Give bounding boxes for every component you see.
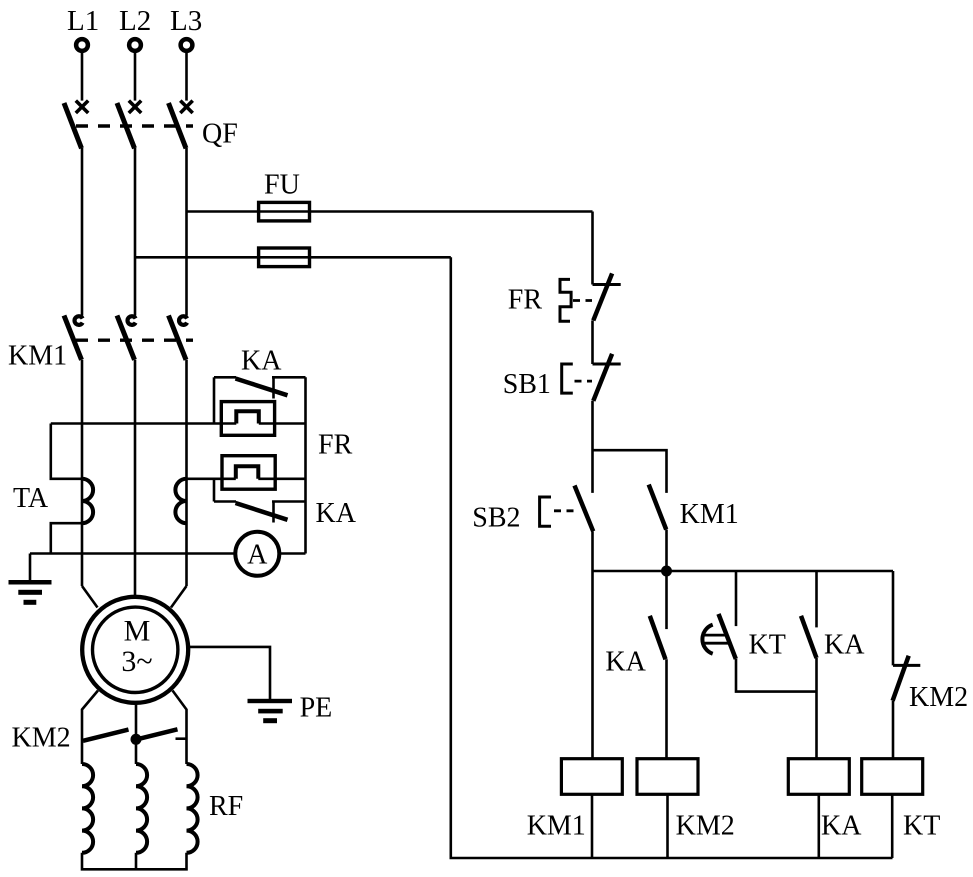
wire phase1 KM1 to motor — [81, 360, 84, 586]
wire motor exit 1 — [82, 691, 98, 765]
wire KM1 branch bottom — [665, 530, 668, 572]
breaker QF pole 2 — [117, 101, 141, 149]
contactor KM1 main pole 3 — [169, 316, 188, 360]
wire FU1 feed — [187, 210, 593, 213]
svg-text:KA: KA — [241, 346, 282, 377]
wire TA bottom tap — [51, 523, 82, 553]
contact KT delayed NO — [702, 614, 735, 659]
wire ammeter row — [30, 552, 306, 555]
svg-text:KM2: KM2 — [12, 723, 71, 754]
svg-text:KM2: KM2 — [909, 682, 968, 713]
contact KA NO left — [650, 616, 666, 660]
wire heater1 row — [51, 422, 306, 425]
coil KM2 — [637, 759, 698, 795]
svg-text:KM2: KM2 — [676, 811, 735, 842]
button SB2 dashes — [554, 509, 577, 512]
svg-text:FR: FR — [318, 429, 353, 460]
contactor KM2 bridge contact left — [83, 730, 129, 741]
ammeter A — [235, 532, 279, 576]
wire motor entry 3 — [171, 586, 187, 608]
wire KM1 coil stub — [591, 794, 594, 858]
contactor KM2 bridge contact right — [139, 729, 187, 739]
wire control bus — [593, 570, 894, 573]
svg-text:M: M — [124, 615, 151, 648]
resistor RF coil 2 — [136, 764, 147, 853]
wire L2 drop — [134, 52, 137, 101]
svg-text:3~: 3~ — [121, 645, 152, 678]
heater FR element 1 bump — [236, 411, 258, 423]
contact KA upper — [214, 377, 306, 398]
contact KA lower — [214, 502, 306, 523]
wire KT branch upper — [735, 571, 738, 626]
wire phase3 KM1 to motor — [185, 360, 188, 586]
coil KA — [788, 759, 849, 795]
resistor RF coil 3 — [187, 764, 198, 853]
svg-text:A: A — [247, 540, 268, 571]
wire KA coil stub — [817, 794, 820, 858]
svg-text:KA: KA — [824, 630, 865, 661]
ground TA — [9, 554, 52, 605]
wire PE tap — [189, 647, 270, 699]
svg-text:KA: KA — [316, 498, 357, 529]
svg-text:PE: PE — [300, 693, 333, 724]
CT TA coil phase1 — [82, 479, 93, 523]
wire RF bottom mid stub — [135, 853, 138, 870]
wire KT coil stub — [891, 794, 894, 858]
button SB1 dashes — [575, 380, 593, 383]
svg-text:TA: TA — [13, 483, 49, 514]
contact KA NO right — [801, 616, 817, 658]
coil KT — [862, 759, 923, 795]
contact FR dashes — [573, 299, 592, 302]
wire KM1 branch top — [593, 450, 667, 493]
svg-text:FU: FU — [264, 170, 300, 201]
wire KA right branch upper — [815, 571, 818, 627]
wire heater2 row — [187, 477, 306, 480]
heater FR element 1 box — [221, 402, 274, 436]
wire SB1 to SB2 — [591, 401, 594, 493]
CT TA coil phase3 — [175, 479, 186, 523]
motor M outer circle — [82, 597, 188, 703]
svg-text:L3: L3 — [170, 5, 202, 37]
wire SB2 to KM1 coil — [591, 531, 594, 758]
wire phase1 QF to KM1 — [81, 148, 84, 316]
terminal L2 — [129, 39, 141, 51]
wire motor entry 1 — [82, 586, 98, 608]
wire KA right branch lower — [815, 658, 818, 759]
wire TA top tap — [51, 424, 82, 479]
contactor KM1 linkage dashed — [76, 339, 193, 342]
svg-text:KM1: KM1 — [527, 811, 586, 842]
wire meter loop right — [304, 377, 307, 553]
svg-text:RF: RF — [209, 791, 243, 822]
svg-text:KA: KA — [821, 811, 862, 842]
svg-text:FR: FR — [508, 285, 543, 316]
svg-text:L2: L2 — [119, 5, 151, 37]
wire meter loop left upper — [213, 377, 216, 423]
contactor KM1 main pole 1 — [64, 316, 83, 360]
svg-text:SB2: SB2 — [472, 502, 520, 533]
breaker QF pole 1 — [64, 101, 88, 149]
contactor KM1 main pole 2 — [117, 316, 136, 360]
wire control main drop — [591, 212, 594, 285]
wire phase2 QF to KM1 — [134, 148, 137, 316]
heater FR element 2 bump — [236, 466, 258, 479]
svg-text:SB1: SB1 — [503, 369, 551, 400]
button SB2 NO — [575, 486, 594, 532]
wire FR to SB1 — [591, 320, 594, 364]
svg-text:QF: QF — [202, 119, 238, 150]
terminal L3 — [181, 39, 193, 51]
contact KM2 NC — [893, 656, 921, 701]
contact FR NC — [593, 273, 621, 320]
breaker QF pole 3 — [169, 101, 193, 149]
breaker QF linkage dashed — [76, 124, 193, 127]
contact FR actuator — [560, 279, 571, 321]
svg-text:KA: KA — [605, 647, 646, 678]
wire L1 drop — [81, 52, 84, 101]
svg-text:KM1: KM1 — [680, 499, 739, 530]
wire KM2 coil stub — [666, 794, 669, 858]
wire RF bottom — [82, 853, 187, 870]
heater FR element 2 box — [222, 456, 275, 490]
svg-text:KT: KT — [749, 630, 786, 661]
wire phase2 KM1 to motor — [134, 360, 137, 597]
wire motor exit 2 — [135, 703, 138, 764]
wire FU2 feed — [135, 256, 451, 259]
resistor RF coil 1 — [82, 764, 93, 853]
button SB1 actuator — [562, 364, 573, 393]
coil KM1 — [561, 759, 622, 795]
motor M inner circle — [93, 607, 178, 692]
fuse FU2 — [259, 248, 310, 267]
wire L3 drop — [185, 52, 188, 101]
svg-text:KM1: KM1 — [8, 340, 67, 371]
wire KA branch lower — [665, 659, 668, 758]
svg-text:KT: KT — [903, 811, 940, 842]
button SB2 actuator — [540, 497, 551, 526]
wire KT branch lower — [736, 659, 817, 692]
wire KM2 branch upper — [892, 571, 895, 665]
wire KM2 branch lower — [892, 701, 895, 759]
fuse FU1 — [259, 202, 310, 221]
ground PE — [248, 699, 293, 723]
contact KM1 aux NO — [649, 485, 667, 530]
svg-text:L1: L1 — [67, 5, 99, 37]
button SB1 NC — [593, 354, 621, 401]
wire KA branch upper — [665, 571, 668, 629]
wire phase3 QF to KM1 — [185, 148, 188, 316]
node junction KM2 — [131, 734, 142, 745]
wire motor exit 3 — [173, 691, 187, 765]
node junction bus — [661, 566, 672, 577]
wire meter loop left lower — [213, 479, 216, 502]
terminal L1 — [76, 39, 88, 51]
wire neutral return — [451, 257, 893, 858]
